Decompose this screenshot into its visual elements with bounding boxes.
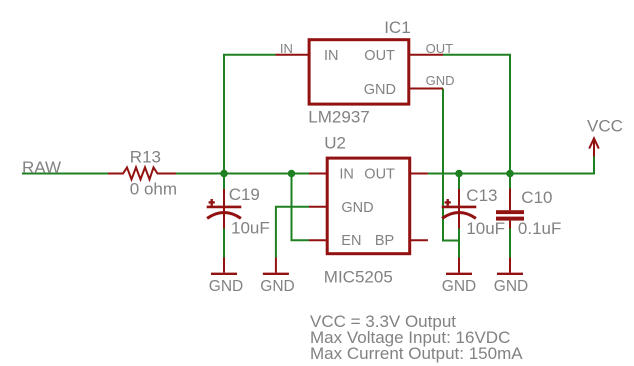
svg-text:C19: C19 bbox=[229, 185, 260, 204]
svg-text:10uF: 10uF bbox=[466, 219, 505, 238]
svg-text:C13: C13 bbox=[466, 186, 497, 205]
svg-text:C10: C10 bbox=[521, 188, 552, 207]
svg-text:OUT: OUT bbox=[364, 167, 395, 183]
svg-text:IN: IN bbox=[339, 167, 354, 183]
svg-text:EN: EN bbox=[341, 233, 361, 249]
svg-text:U2: U2 bbox=[324, 133, 346, 152]
svg-text:LM2937: LM2937 bbox=[308, 107, 369, 126]
svg-text:10uF: 10uF bbox=[231, 219, 270, 238]
svg-text:GND: GND bbox=[442, 278, 476, 295]
svg-text:0.1uF: 0.1uF bbox=[518, 219, 561, 238]
svg-text:GND: GND bbox=[426, 73, 455, 88]
svg-text:R13: R13 bbox=[130, 147, 161, 166]
svg-text:Max Current Output: 150mA: Max Current Output: 150mA bbox=[310, 344, 523, 363]
svg-text:IC1: IC1 bbox=[384, 18, 410, 37]
svg-text:BP: BP bbox=[375, 233, 394, 249]
svg-text:VCC: VCC bbox=[587, 117, 623, 136]
svg-text:OUT: OUT bbox=[364, 48, 395, 64]
svg-text:GND: GND bbox=[341, 200, 373, 216]
svg-text:IN: IN bbox=[280, 41, 293, 56]
svg-text:RAW: RAW bbox=[22, 158, 61, 177]
svg-text:OUT: OUT bbox=[426, 41, 454, 56]
svg-text:0 ohm: 0 ohm bbox=[130, 180, 177, 199]
svg-text:GND: GND bbox=[364, 82, 396, 98]
svg-text:MIC5205: MIC5205 bbox=[324, 268, 393, 287]
svg-text:GND: GND bbox=[209, 278, 243, 295]
svg-text:GND: GND bbox=[260, 278, 294, 295]
svg-text:GND: GND bbox=[494, 278, 528, 295]
svg-text:IN: IN bbox=[324, 48, 339, 64]
